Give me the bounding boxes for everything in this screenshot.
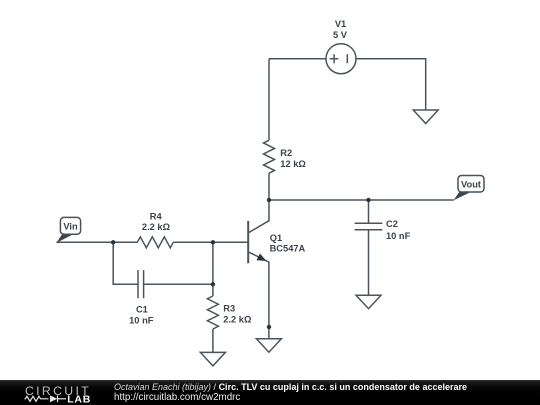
- svg-text:R3: R3: [223, 304, 235, 314]
- capacitor C1 plates: [138, 270, 144, 298]
- capacitor C2 plates: [355, 223, 383, 230]
- wire: C2 bottom plate to ground: [368, 230, 370, 296]
- svg-text:BC547A: BC547A: [270, 244, 306, 254]
- net flag Vout: [454, 176, 484, 201]
- wire: V1 right terminal to right corner and down to ground: [356, 59, 426, 110]
- svg-text:Q1: Q1: [270, 233, 282, 243]
- svg-text:V1: V1: [335, 19, 346, 29]
- resistor R3 top lead: [212, 284, 214, 296]
- junction node: collector / R2: [267, 198, 271, 202]
- svg-text:5 V: 5 V: [333, 30, 348, 40]
- wire: output node down to C2: [368, 200, 370, 223]
- svg-text:2.2 kΩ: 2.2 kΩ: [223, 314, 252, 324]
- V1 minus bar: [346, 54, 348, 63]
- svg-text:Vout: Vout: [461, 180, 481, 190]
- wire: R2 bottom lead to collector node: [268, 173, 270, 200]
- junction node A: Vin / R4 / C1: [111, 240, 115, 244]
- svg-text:Vin: Vin: [63, 222, 78, 232]
- transistor Q1 base bar: [247, 221, 249, 263]
- wire: input net Vin to base (with R4 inline): [56, 241, 248, 243]
- wire: node A down-leg to C1 left plate: [113, 242, 138, 284]
- svg-text:C1: C1: [136, 304, 148, 314]
- wire: R3 bottom lead to ground: [212, 329, 214, 352]
- ground symbol G4 (below C2): [356, 295, 381, 309]
- svg-text:10 nF: 10 nF: [386, 231, 411, 241]
- svg-text:LAB: LAB: [67, 394, 91, 405]
- wire: V1 left terminal to top-left corner: [269, 58, 326, 60]
- wire: left vertical from corner down to R2: [268, 59, 270, 141]
- svg-text:C2: C2: [386, 219, 398, 229]
- footer attribution bar: [0, 380, 540, 405]
- junction node: output / C2: [366, 198, 370, 202]
- wire: node B vertical between R4 right and C1 right: [212, 242, 214, 284]
- junction node: C1 / R3: [211, 282, 215, 286]
- svg-text:10 nF: 10 nF: [129, 315, 154, 325]
- transistor Q1 emitter arrowhead: [257, 254, 267, 261]
- svg-text:2.2 kΩ: 2.2 kΩ: [142, 222, 171, 232]
- svg-text:R2: R2: [280, 148, 292, 158]
- ground symbol G1 (V1 negative): [413, 110, 438, 124]
- svg-text:12 kΩ: 12 kΩ: [280, 159, 306, 169]
- wire: output node horizontal to Vout: [269, 199, 454, 201]
- junction node B: R4 / base: [211, 240, 215, 244]
- voltage source V1 circle: [326, 44, 356, 74]
- transistor Q1 collector lead: [249, 200, 269, 233]
- junction node: emitter / ground: [267, 325, 271, 329]
- footer text: [114, 382, 467, 404]
- net flag Vin: [56, 217, 80, 243]
- resistor R2 zigzag: [264, 140, 275, 173]
- resistor R3 zigzag: [207, 296, 218, 329]
- ground symbol G3 (below Q1 emitter): [256, 339, 281, 353]
- resistor R4 zigzag: [137, 237, 173, 248]
- wire: C1 right plate to node B: [144, 283, 213, 285]
- V1 plus sign: [330, 54, 339, 63]
- ground symbol G2 (below R3): [200, 352, 225, 366]
- svg-text:R4: R4: [150, 211, 163, 221]
- CircuitLab logo: [0, 380, 110, 405]
- transistor Q1 emitter lead: [249, 252, 269, 339]
